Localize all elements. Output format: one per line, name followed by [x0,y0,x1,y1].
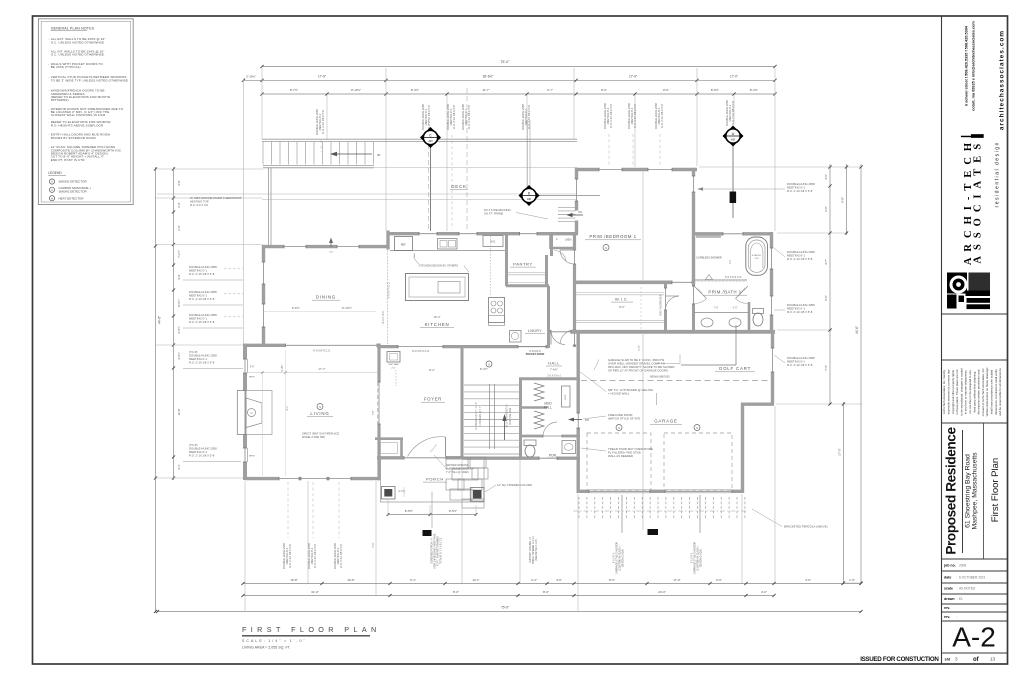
general plan notes box [38,19,133,205]
pergola marker [648,529,659,535]
wet bar closet [387,352,400,363]
svg-text:CURBLESS SHOWER: CURBLESS SHOWER [696,257,722,260]
wall stair east [519,378,522,460]
bedroom ceiling line [642,172,644,281]
dim line overall width 75ft [262,66,775,68]
deck platform lines [263,167,577,169]
wall kitchen-foyer divider [377,345,398,348]
svg-text:PANTRY: PANTRY [513,262,532,267]
svg-text:DESIGN (2 SQA): DESIGN (2 SQA) [622,549,625,567]
svg-text:13 RISERS @ 7.7": 13 RISERS @ 7.7" [480,406,482,426]
svg-text:R.O. 2'-10 1/8 X 5'-8: R.O. 2'-10 1/8 X 5'-8 [189,272,215,276]
svg-text:AZEK 5/4 DECKING+SKIRT+RAIL: AZEK 5/4 DECKING+SKIRT+RAIL [434,533,437,569]
svg-text:8'-10½": 8'-10½" [342,306,352,310]
svg-text:9'-0 X 8'-0: 9'-0 X 8'-0 [614,552,616,563]
svg-text:12'-9": 12'-9" [177,409,181,416]
living smoke detector [317,404,323,410]
svg-text:R.O. 2'-10 1/8 X 5'-8: R.O. 2'-10 1/8 X 5'-8 [288,544,292,568]
svg-text:WALL AS NEEDED: WALL AS NEEDED [608,454,633,458]
svg-text:R.O. 2'-10 1/8 X 5'-8: R.O. 2'-10 1/8 X 5'-8 [189,297,215,301]
wall dining-living divider [263,344,286,347]
bath vanity [694,312,748,314]
pdr toilet [524,440,536,446]
dim extension lines top [261,68,263,139]
golf cart slab edge [735,325,737,365]
garage parking stalls dashed [587,433,651,490]
svg-text:7'-6": 7'-6" [714,307,719,310]
svg-text:PDR.: PDR. [549,454,557,458]
svg-text:S: S [696,426,698,430]
wall mud inner [522,406,547,409]
svg-text:R.O. 2'-10 1/8 X 5'-8: R.O. 2'-10 1/8 X 5'-8 [321,110,325,134]
svg-text:R.O. 2'-10 1/8 X 5'-8: R.O. 2'-10 1/8 X 5'-8 [787,189,813,193]
wall foyer east / stair west [461,345,464,460]
bedroom door swing [560,250,575,264]
porch column left [382,487,396,500]
wall jog kitchen-dining [386,231,389,250]
svg-text:6'-4½": 6'-4½" [177,299,181,307]
archi-tech logo [947,273,967,294]
svg-text:7'-6½": 7'-6½" [550,368,558,372]
svg-text:EL: EL [959,597,963,601]
right dim line 17ft [843,402,845,584]
svg-text:DESIGN (2 SQA): DESIGN (2 SQA) [700,549,703,567]
wall bedroom south [573,280,672,284]
svg-text:DINING: DINING [316,295,336,300]
fireplace [237,391,246,435]
wall dining north [262,245,284,248]
svg-text:8'-0½": 8'-0½" [711,88,719,92]
svg-text:4'-½": 4'-½" [637,345,641,351]
svg-text:-: - [48,107,49,111]
wall living south [245,477,279,480]
svg-text:4'-4": 4'-4" [531,578,537,582]
svg-text:9'-0 X 8'-0 C.O.: 9'-0 X 8'-0 C.O. [313,348,331,352]
pdr door swing [543,422,557,436]
foyer closet [375,437,403,440]
svg-text:TUB: TUB [754,258,759,260]
divider address/sheet title [983,423,985,559]
svg-text:3'-6": 3'-6" [556,578,562,582]
svg-text:+ HOUSE WALL: + HOUSE WALL [608,392,630,396]
cased opening dashes bedroom [672,281,692,283]
linen closet [550,247,575,250]
hall upper door swing [560,330,575,344]
svg-text:CLOSEST WALL FINISHING IN FILM: CLOSEST WALL FINISHING IN FILM [51,113,106,117]
svg-text:4'-6": 4'-6" [177,180,181,185]
wall bedroom east [692,168,695,176]
svg-text:GOLF CART: GOLF CART [719,366,751,371]
svg-text:drawn: drawn [944,597,955,601]
svg-text:BE 2X6S (TYPICAL): BE 2X6S (TYPICAL) [51,65,81,69]
detector A [732,145,734,218]
svg-text:6 school street t 508.420.5: 6 school street t 508.420.5335 f 508.420… [965,25,969,106]
wic shelves [576,292,664,294]
wall oven [483,236,503,247]
svg-text:BUILT-IN DRESSER: BUILT-IN DRESSER [661,294,663,315]
bottom dim line second [243,595,774,597]
wall living east [377,344,380,382]
deck rail [262,138,577,140]
svg-text:sht: sht [945,658,951,662]
svg-text:17'-0": 17'-0" [673,578,680,582]
svg-text:R.O. 2'-10 1/8 X 5'-8: R.O. 2'-10 1/8 X 5'-8 [452,105,456,129]
svg-text:R.O. 2'-10 1/8 X 5'-8: R.O. 2'-10 1/8 X 5'-8 [633,104,637,128]
kitchen island [406,274,469,301]
dim line third tier [262,93,775,95]
svg-text:4'-0": 4'-0" [761,590,767,594]
living west benches [247,359,249,373]
pantry shelves [508,272,546,274]
right dim line mid [829,164,831,405]
svg-text:R.O. 2'-10 1/8 X 5'-8: R.O. 2'-10 1/8 X 5'-8 [189,320,215,324]
svg-text:-: - [48,62,49,66]
svg-text:HALL: HALL [544,406,552,410]
svg-text:BRACKETED PERGOLA (ABOVE): BRACKETED PERGOLA (ABOVE) [784,525,828,529]
svg-text:PATTERNS): PATTERNS) [51,98,69,102]
svg-text:SMOKE DETECTOR: SMOKE DETECTOR [59,180,88,184]
svg-text:KITCHEN: KITCHEN [425,322,450,327]
svg-text:8'-5½": 8'-5½" [405,509,413,513]
svg-text:DN: DN [579,211,583,214]
svg-text:44'-6": 44'-6" [158,316,162,324]
svg-text:R.O. 2'-10 1/8 X 5'-8: R.O. 2'-10 1/8 X 5'-8 [427,105,431,129]
wall pantry south [506,284,549,287]
svg-text:24'-0": 24'-0" [658,590,666,594]
svg-text:5/4 X 6 IPE DECKING: 5/4 X 6 IPE DECKING [484,208,511,212]
svg-text:D: D [251,411,253,415]
svg-text:9'-0½": 9'-0½" [280,364,284,371]
svg-text:O.C. UNLESS NOTED OTHERWISE: O.C. UNLESS NOTED OTHERWISE [51,52,104,56]
svg-text:ON P.T. FRAME: ON P.T. FRAME [484,212,503,216]
svg-text::: : [957,576,958,580]
svg-text:HALL: HALL [548,362,560,366]
svg-text:6'-0": 6'-0" [824,206,828,212]
svg-text:3'-1": 3'-1" [177,464,181,469]
svg-text::: : [957,597,958,601]
porch steps [446,457,468,469]
svg-text:job no.: job no. [943,564,956,568]
stair treads [464,384,519,386]
svg-text:R.O. 2'-10 1/8 X 5'-8: R.O. 2'-10 1/8 X 5'-8 [339,544,343,568]
svg-text:PORCH: PORCH [426,477,444,482]
deck dashed roof lines [428,120,430,230]
svg-text:BEAM (ABOVE): BEAM (ABOVE) [650,375,670,379]
svg-text:R.O. 2'-10 1/8 X 5'-8: R.O. 2'-10 1/8 X 5'-8 [787,310,813,314]
svg-text:3'-7": 3'-7" [824,259,828,265]
wall bedroom west lower [573,232,576,250]
svg-text:SCREENED PORCH + 8: SCREENED PORCH + 8 [432,537,434,563]
svg-text:S: S [618,426,620,430]
svg-text:3'-0": 3'-0" [824,174,828,180]
dim line left inner [173,167,175,480]
svg-text:rev.: rev. [944,606,950,610]
toilet nook wall [748,302,751,331]
kitchen counter top edge [390,250,506,252]
svg-text:3'-4½": 3'-4½" [177,352,181,360]
svg-text:BENT: BENT [565,394,567,400]
svg-text:8'-0": 8'-0" [453,590,459,594]
svg-text:LIVING: LIVING [310,411,329,416]
svg-text:Proposed Residence: Proposed Residence [944,427,959,555]
deck left edge [268,168,270,246]
kitchen counter dotted [490,233,492,296]
svg-text:17'-0": 17'-0" [730,74,738,78]
svg-text:scale: scale [944,587,953,591]
svg-text:S: S [319,405,321,409]
wall bedroom west upper [575,168,578,179]
dim line left outer [155,167,157,612]
bath toilet [753,309,764,314]
wall garage west [577,332,580,413]
svg-text:W.O.: W.O. [490,240,496,244]
svg-text:AS NOTED: AS NOTED [959,587,976,591]
shower niche [696,235,721,238]
wall pdr north [520,435,543,438]
svg-text:O.C. UNLESS NOTED OTHERWISE: O.C. UNLESS NOTED OTHERWISE [51,40,104,44]
bottom dim line first [243,583,861,585]
garage door sills [589,489,650,491]
svg-text:UP PER 12" AT FRONT OF GARAGE: UP PER 12" AT FRONT OF GARAGE DOORS [608,369,668,373]
svg-text:10'-8": 10'-8" [290,578,297,582]
wall hall-pdr south [462,457,539,460]
svg-text::: : [957,587,958,591]
svg-text:44'-6": 44'-6" [855,326,859,334]
svg-text:BENT: BENT [249,376,255,378]
svg-text:75'-0": 75'-0" [500,60,510,64]
svg-text:7'-6": 7'-6" [372,410,375,415]
right dim line outer [860,164,862,584]
svg-text:-: - [48,75,49,79]
svg-text:17'-7": 17'-7" [318,367,325,371]
window stack leaders dashed [608,134,610,167]
section marker [730,192,737,204]
mud bench [562,386,571,407]
section marker bottom [423,530,432,536]
svg-text:7'-4": 7'-4" [824,365,828,371]
garage smoke detectors [616,425,622,431]
svg-text:-: - [48,89,49,93]
svg-text:POCKET DOOR: POCKET DOOR [526,353,545,356]
svg-text:12'-1": 12'-1" [472,578,479,582]
mud coat hooks [534,383,544,401]
cased opening living-foyer [377,382,379,424]
pantry door swing [554,250,566,261]
svg-text:ASSOCIATES▌: ASSOCIATES▌ [971,124,985,263]
svg-text:31'-0": 31'-0" [311,590,319,594]
shower curb [694,279,747,281]
wall bedroom north [575,168,599,171]
wall bath west partial [692,284,695,286]
svg-text:SOAKING: SOAKING [752,254,762,257]
svg-text:-: - [48,120,49,124]
svg-text:8'-6": 8'-6" [663,88,669,92]
svg-text:DN: DN [329,252,333,254]
svg-text:cotuit, ma 02635 e info@arc: cotuit, ma 02635 e info@architechassocia… [972,21,976,111]
porch slab [380,460,382,503]
wall garage east [741,403,744,493]
svg-text:9'-0 X 8'-0 C.O.: 9'-0 X 8'-0 C.O. [388,282,391,299]
svg-text:-: - [48,37,49,41]
svg-text:LNDRY: LNDRY [528,329,542,333]
svg-text:61 Shoestring Bay Road: 61 Shoestring Bay Road [965,454,972,528]
svg-text:S C A L E : 1 / 4 " = 1 ' -: S C A L E : 1 / 4 " = 1 ' - 0 " [242,639,306,643]
deck stairs [262,142,264,165]
svg-text:LEGEND: LEGEND [48,171,62,175]
kitchen sink [438,239,458,250]
wall dining west [262,245,265,262]
svg-text:R.O. 2'-10 1/8 X 5'-8: R.O. 2'-10 1/8 X 5'-8 [189,454,215,458]
svg-text:8'-6": 8'-6" [609,578,615,582]
svg-text:5'-0 X 9'-0 C.O.: 5'-0 X 9'-0 C.O. [725,276,742,279]
svg-text:PRIM./BEDROOM 1: PRIM./BEDROOM 1 [589,234,636,239]
legend smoke detector [49,179,54,184]
svg-text:DECK: DECK [451,184,466,189]
svg-text:r e s i d e n t i a l d e s: r e s i d e n t i a l d e s i g n [995,142,1001,207]
svg-text:GENERAL PLAN NOTES: GENERAL PLAN NOTES [51,26,95,30]
porch dim line [388,514,476,516]
svg-text:BENT: BENT [249,456,255,458]
svg-text:TO BE 3" WIDE TYP. UNLESS NOTE: TO BE 3" WIDE TYP. UNLESS NOTED OTHERWIS… [51,78,128,82]
svg-text:H: H [51,196,53,200]
svg-text:date: date [944,576,951,580]
hall door swing up [551,331,565,345]
svg-text:REF.: REF. [401,243,407,247]
right label leaders [700,188,785,190]
svg-text:S: S [605,246,607,250]
legend carbon monoxide detector [49,187,54,192]
svg-text:8'-4½": 8'-4½" [480,367,488,371]
svg-text:PRIM./BATH 1: PRIM./BATH 1 [708,290,741,295]
svg-text:3'-6": 3'-6" [805,578,811,582]
svg-text:RAIL ONE SIDE: RAIL ONE SIDE [509,407,512,424]
svg-text:3'-10½": 3'-10½" [246,74,256,78]
svg-text:8'-6": 8'-6" [601,88,607,92]
svg-text:C: C [51,188,53,192]
svg-text:9'-1": 9'-1" [410,578,416,582]
refrigerator [395,237,413,251]
svg-text:R.O. HEIGHTS ABOVE SUBFLOOR: R.O. HEIGHTS ABOVE SUBFLOOR [51,123,104,127]
svg-text:and be responsible for all dim: and be responsible for all dimensions [998,368,1002,416]
svg-text:12'-9 X 10-0: 12'-9 X 10-0 [382,311,385,325]
bedroom smoke detector [603,245,609,251]
svg-text:8'-2": 8'-2" [429,368,435,372]
svg-text:(SEE DETAIL 3, A-8): (SEE DETAIL 3, A-8) [535,539,538,560]
bath double doors [694,286,707,299]
svg-text:TOTAL R.O. 7-3 X 8-2 1/2: TOTAL R.O. 7-3 X 8-2 1/2 [440,537,443,564]
svg-text:-: - [48,133,49,137]
svg-text:R.O. 2'-10 1/8 X 5'-8: R.O. 2'-10 1/8 X 5'-8 [527,105,531,129]
svg-text:7'-2½": 7'-2½" [177,250,181,258]
svg-text:F I R S T F L O O R P L A: F I R S T F L O O R P L A N [242,625,377,634]
svg-text:-: - [48,145,49,149]
svg-text:rev.: rev. [944,615,950,619]
svg-text:LIVING AREA = 2,055 SQ. FT.: LIVING AREA = 2,055 SQ. FT. [242,646,291,650]
svg-text:R.O. 2'-10 1/8 X 5'-8: R.O. 2'-10 1/8 X 5'-8 [189,361,215,365]
svg-text:6'-6": 6'-6" [716,578,722,582]
svg-text:LNEN: LNEN [565,239,572,242]
svg-text:3R: 3R [377,153,380,157]
stair stringer [489,384,491,449]
svg-text:DOORS BY EXTERIOR DOOR: DOORS BY EXTERIOR DOOR [51,136,97,140]
deck right stair dn arrow [570,214,583,216]
svg-text:WET BAR: WET BAR [389,363,399,366]
svg-text:R.O. 2'-10 1/8 X 5'-8: R.O. 2'-10 1/8 X 5'-8 [660,104,664,128]
kitchen range [489,298,505,323]
svg-text:W.I.C.: W.I.C. [615,297,629,302]
svg-text:3'-0": 3'-0" [733,307,738,310]
svg-text:2X12 STRINGERS (3): 2X12 STRINGERS (3) [507,404,509,427]
right dim line 9ft [846,164,848,235]
svg-text:13: 13 [990,657,996,662]
svg-text:END PT. POST IS CTR.: END PT. POST IS CTR. [51,158,86,162]
svg-text:S: S [488,363,490,367]
svg-text:8'-4½": 8'-4½" [411,88,419,92]
svg-text:9'-0 X 8'-0 C.O.: 9'-0 X 8'-0 C.O. [412,349,430,353]
svg-text:7'-0" TALL @ SIDES: 7'-0" TALL @ SIDES [446,471,469,474]
svg-text:MODEL # SIZE TBD: MODEL # SIZE TBD [302,436,325,439]
wall living north step [245,344,265,347]
svg-text:8'-1": 8'-1" [286,405,289,410]
wall foyer south [377,456,404,459]
svg-text:2'-0": 2'-0" [177,225,181,230]
pocket door kitchen hall [518,346,546,348]
svg-text:FOYER: FOYER [424,397,442,402]
svg-text:R.O. 2'-10 1/8 X 5'-8: R.O. 2'-10 1/8 X 5'-8 [787,257,813,261]
svg-text:CARRIAGE STYLE O/H DOOR: CARRIAGE STYLE O/H DOOR [616,542,619,575]
pergola comb [578,497,580,518]
svg-text:(CUSTOM) W/ GLASS +: (CUSTOM) W/ GLASS + [619,545,622,571]
right ext lines [699,166,862,168]
svg-text:2'-0": 2'-0" [177,202,181,207]
soaking tub [746,237,768,275]
svg-text:R.O. 2'-10 1/8 X 5'-8: R.O. 2'-10 1/8 X 5'-8 [609,104,613,128]
svg-text::: : [957,564,958,568]
hall smoke detector [486,361,492,367]
svg-text:8'-6½": 8'-6½" [292,306,300,310]
wic door swing [666,296,680,310]
carbon detector C [430,146,432,231]
svg-text:6 OCTOBER 2021: 6 OCTOBER 2021 [959,576,986,580]
svg-text:of: of [973,657,980,663]
wall garage south [577,490,590,493]
svg-text:BORAL TAPERED 10 X 10: BORAL TAPERED 10 X 10 [532,536,535,564]
svg-text:(CUSTOM) W/ GLASS +: (CUSTOM) W/ GLASS + [697,545,700,571]
wall wing south [548,330,551,334]
wall pantry east [550,234,553,256]
svg-text:5'-0": 5'-0" [824,295,828,301]
wall golf cart east [771,330,774,348]
svg-text:CARRIAGE STYLE O/H DOOR: CARRIAGE STYLE O/H DOOR [694,542,697,575]
svg-text:9'-5½": 9'-5½" [449,509,457,513]
svg-text:12" SQ. TAPERED COLUMN: 12" SQ. TAPERED COLUMN [497,483,532,487]
svg-text:architechassociates.com: architechassociates.com [999,30,1006,130]
svg-text:75'-6": 75'-6" [501,606,509,610]
svg-text:12 TREADS @ 10" = 10'-0": 12 TREADS @ 10" = 10'-0" [475,402,478,430]
svg-text:SUPPORT COLUMN + 8: SUPPORT COLUMN + 8 [530,537,532,563]
deck stair arrow [336,153,372,155]
svg-text:S: S [51,180,53,184]
bottom ext lines [244,481,246,611]
svg-text:8'-4½": 8'-4½" [750,88,758,92]
wall laundry east [547,286,550,348]
svg-text::: : [957,615,958,619]
wall garage jog [741,403,774,406]
svg-text:-: - [48,49,49,53]
svg-text:5'-6": 5'-6" [372,542,375,547]
detector D [526,120,528,187]
deck right stair [558,206,576,208]
